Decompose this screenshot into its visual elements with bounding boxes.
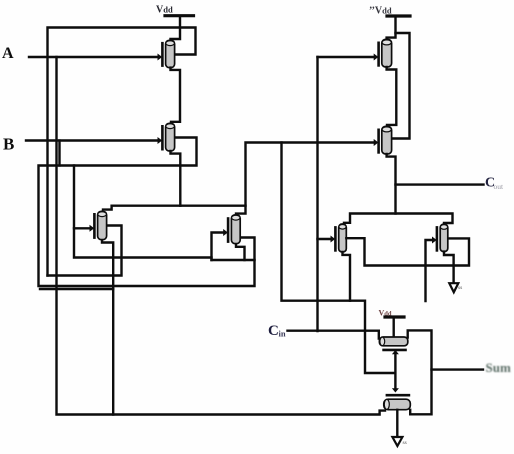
power Vdd rail 2 bar	[387, 14, 410, 17]
wire Vdd2 drop to M5 source	[387, 16, 396, 40]
svg-text:out: out	[494, 182, 505, 191]
wire M8 gate lead with hanging vertical x425.5	[426, 240, 433, 301]
label B	[3, 135, 14, 154]
transistor M10 gate bar	[387, 394, 409, 397]
wire M7 drain contact down x364.5 and rail y265.5 to M8 drain contact	[346, 238, 469, 265]
transistor M2 gate bar	[161, 126, 164, 149]
transistor M3 gate arrow	[90, 225, 95, 232]
transistor M4 gate arrow	[223, 229, 228, 236]
wire M4 gate lead and vertical x211.5	[212, 233, 225, 261]
wire node rail riser x245.5 up to y142.5 line feeding M6 gate	[246, 143, 374, 206]
svg-text:ss: ss	[403, 440, 407, 446]
transistor M6 gate bar	[377, 130, 380, 153]
wire M3 drain lead x113 down to bottom rail	[102, 240, 113, 415]
wire M5 gate line from x317.5	[318, 56, 375, 58]
ground symbol Vss upper	[449, 283, 458, 292]
transistor M9 gate arrow	[392, 350, 399, 354]
wire M5 drain down to M6 source	[387, 67, 397, 127]
label Cout	[485, 176, 504, 192]
wire M2 drain loop, y165.5 line, left box x38.5 down, H3 y286 to M4 contact	[39, 138, 255, 287]
label Vss lower	[403, 440, 407, 446]
wire M7 drain lead down to y300.7	[343, 252, 351, 301]
transistor M8 gate arrow	[432, 237, 437, 244]
transistor M9 gate bar	[384, 349, 406, 352]
transistor M6 gate arrow	[374, 139, 379, 146]
transistor M8 body	[440, 224, 448, 251]
label Vdd 2	[369, 6, 392, 17]
transistor M1 gate arrow	[158, 54, 163, 61]
svg-text:ss: ss	[458, 285, 462, 291]
node Cin input wire	[288, 331, 379, 339]
svg-text:in: in	[279, 329, 286, 339]
transistor M5 gate bar	[377, 43, 380, 66]
transistor M8 gate bar	[436, 227, 439, 250]
wire M2 drain x180 down to M3/M4 rail	[179, 166, 181, 206]
power Vdd rail 3 bar	[385, 315, 404, 318]
transistor M6 body	[382, 126, 392, 154]
wire Vdd3 drop to M9 top	[393, 317, 395, 338]
transistor M3 gate bar	[93, 214, 96, 237]
power Vdd rail 1 bar	[165, 14, 194, 17]
svg-text:A: A	[2, 45, 14, 62]
transistor M1 body	[166, 40, 175, 67]
wire H4 y289 stub	[40, 288, 113, 290]
wire vertical x74 to H1 y257.5 jog to M4 drain corner	[74, 166, 255, 261]
wire M10 drain down to ground	[396, 410, 398, 437]
transistor M10 gate arrow down	[392, 388, 399, 392]
wire M1 drain down to M2 source	[171, 68, 181, 124]
wire M3/M4 source top rail y205.7 with riser to M4 top	[103, 206, 246, 214]
wire gate link M9 to M10	[394, 353, 396, 390]
label Vdd 3	[379, 309, 392, 318]
label Cin	[268, 323, 286, 339]
transistor M1 gate bar	[161, 43, 164, 65]
transistor M7 gate bar	[334, 227, 337, 250]
wire M8 drain lead down to ground	[444, 252, 454, 283]
transistor M9 body horizontal	[379, 337, 407, 346]
ground symbol Vss lower	[392, 437, 402, 446]
node B input wire	[26, 139, 159, 141]
svg-text:C: C	[268, 323, 279, 339]
transistor M7 gate arrow	[331, 236, 336, 243]
wire B tap vertical x59.5	[58, 141, 60, 166]
svg-text:Vdd: Vdd	[156, 5, 173, 16]
transistor M3 body	[98, 211, 107, 239]
wire M6 drain down through Cout node to stage rail	[387, 154, 396, 214]
wire M3 drain contact loop to H2 y275.5	[48, 226, 122, 276]
wire A tap vertical x56.5 down to bottom rail and to M10 left lead	[57, 57, 386, 415]
wire M7 gate lead from x317.5	[318, 238, 332, 240]
wire Vdd1 drop to M1 source	[171, 16, 181, 41]
node Sum output wire	[432, 368, 484, 370]
transistor M4 gate bar	[227, 219, 230, 242]
wire A-XOR network left loop: vertical x47.5 with top line to M1 drain contact	[48, 28, 196, 276]
wire M3 gate lead from x74	[74, 227, 92, 229]
transistor M2 body	[166, 123, 175, 151]
svg-text:Sum: Sum	[486, 360, 511, 375]
wire M2 drain down to y165.5	[171, 151, 181, 166]
label A	[2, 45, 14, 62]
svg-text:’’Vdd: ’’Vdd	[369, 6, 392, 17]
transistor M7 body	[339, 224, 347, 252]
wire M5 source loop down right side to M6 drain contact	[392, 33, 410, 139]
svg-text:Vdd: Vdd	[379, 309, 392, 318]
svg-text:B: B	[3, 135, 14, 154]
wire M9 right lead loop to Sum and M10 right lead	[408, 330, 432, 414]
label Sum	[486, 360, 511, 375]
transistor M2 gate arrow	[158, 137, 163, 144]
wire vertical x317.5 from M5 gate down to Cin	[316, 57, 318, 331]
label Vdd 1	[156, 5, 173, 16]
wire M7/M8 source rail y213.5	[344, 214, 453, 224]
node A input wire	[29, 56, 159, 58]
wire x281.5 from y142.5 down, y300.7 line, x365 down, y373 link to gates	[282, 143, 395, 374]
transistor M4 body	[231, 215, 240, 244]
transistor M10 body horizontal	[384, 399, 411, 410]
transistor M5 body	[382, 39, 392, 67]
label Vss upper	[458, 285, 462, 291]
node Cout output wire	[396, 183, 484, 185]
transistor M5 gate arrow	[374, 54, 379, 61]
wire M4 drain lead step to x244.5 down to H1b	[236, 244, 245, 260]
